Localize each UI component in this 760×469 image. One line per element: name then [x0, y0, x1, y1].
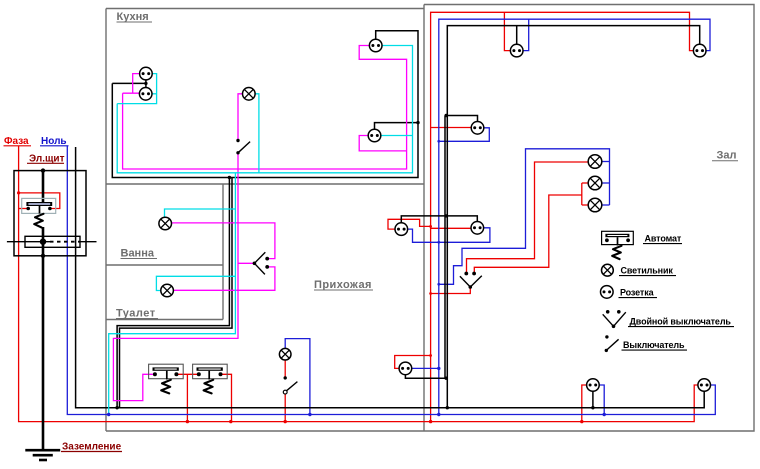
svg-text:Кухня: Кухня — [117, 11, 149, 23]
svg-text:Зал: Зал — [717, 150, 737, 162]
svg-text:Заземление: Заземление — [62, 442, 122, 453]
svg-text:Туалет: Туалет — [116, 308, 156, 320]
svg-text:Автомат: Автомат — [645, 234, 682, 244]
svg-text:Ванна: Ванна — [121, 248, 155, 260]
svg-text:Прихожая: Прихожая — [314, 279, 372, 291]
svg-text:Выключатель: Выключатель — [623, 340, 685, 350]
svg-text:Розетка: Розетка — [620, 288, 655, 298]
svg-text:Двойной выключатель: Двойной выключатель — [630, 317, 732, 327]
svg-text:Светильник: Светильник — [621, 266, 674, 276]
